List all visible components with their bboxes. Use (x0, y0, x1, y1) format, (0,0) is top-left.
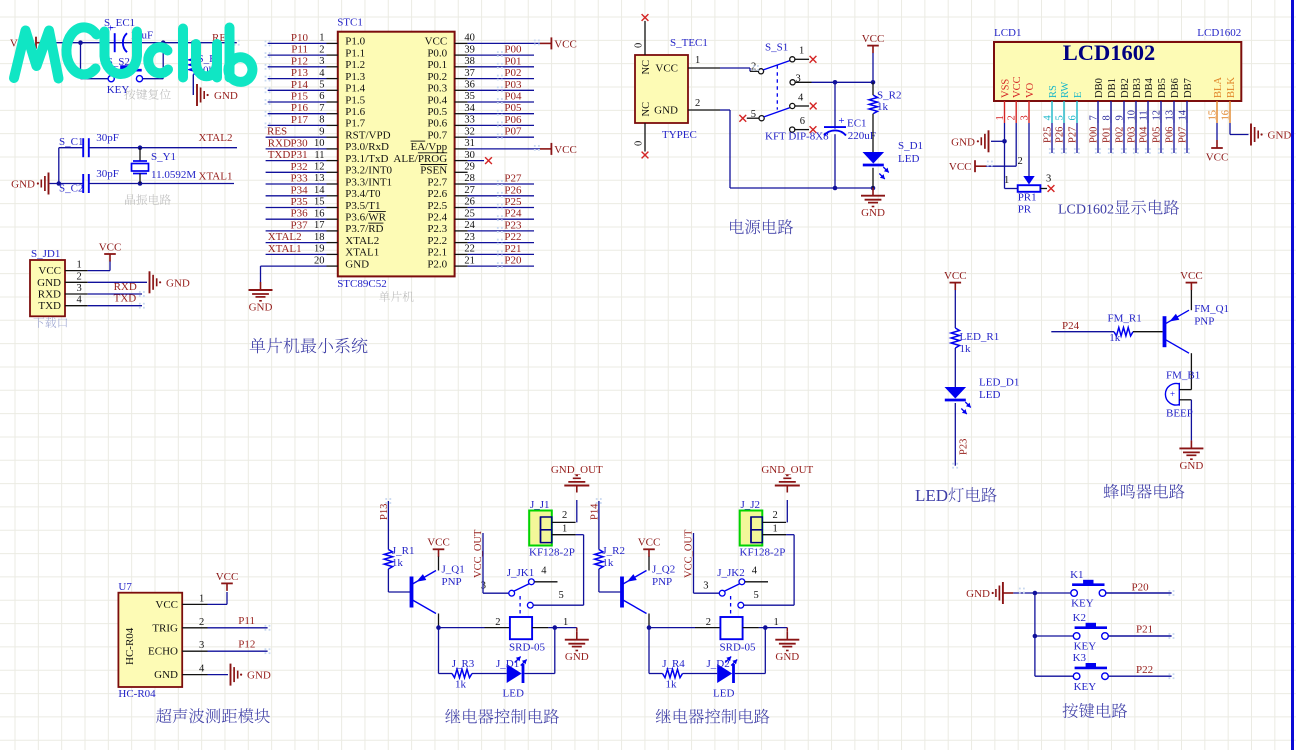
svg-text:P2.0: P2.0 (427, 258, 447, 270)
svg-text:2: 2 (199, 617, 204, 628)
svg-text:P3.7/RD: P3.7/RD (345, 223, 383, 235)
svg-text:P01: P01 (504, 55, 521, 67)
svg-text:S_C2: S_C2 (59, 183, 83, 195)
svg-text:P14: P14 (291, 79, 309, 91)
svg-text:J_Q1: J_Q1 (442, 564, 465, 576)
svg-text:P0.4: P0.4 (427, 94, 447, 106)
svg-text:GND: GND (11, 179, 35, 191)
svg-text:11.0592M: 11.0592M (151, 169, 196, 181)
svg-text:38: 38 (464, 56, 475, 67)
svg-text:P2.7: P2.7 (427, 176, 447, 188)
svg-text:P2.4: P2.4 (427, 212, 447, 224)
svg-text:GND_OUT: GND_OUT (551, 464, 603, 476)
svg-text:STC1: STC1 (337, 17, 363, 29)
svg-text:GND: GND (1268, 130, 1292, 142)
svg-text:5: 5 (754, 590, 759, 601)
svg-text:P3.1/TxD: P3.1/TxD (345, 153, 388, 165)
svg-text:16: 16 (314, 208, 325, 219)
svg-text:25: 25 (464, 208, 475, 219)
svg-text:37: 37 (464, 68, 475, 79)
svg-text:4: 4 (199, 664, 205, 675)
svg-text:VCC: VCC (99, 241, 122, 253)
svg-text:P1.1: P1.1 (345, 47, 365, 59)
svg-text:GND: GND (966, 588, 990, 600)
svg-text:P2.3: P2.3 (427, 223, 447, 235)
svg-text:STC89C52: STC89C52 (337, 278, 387, 290)
svg-text:GND: GND (951, 136, 975, 148)
svg-text:P21: P21 (1136, 624, 1153, 636)
svg-text:XTAL2: XTAL2 (199, 132, 233, 144)
svg-text:VCC: VCC (425, 36, 448, 48)
svg-text:DB7: DB7 (1183, 78, 1194, 98)
svg-text:XTAL1: XTAL1 (345, 247, 379, 259)
svg-text:P02: P02 (1115, 127, 1126, 143)
svg-text:P22: P22 (1136, 664, 1153, 676)
svg-text:1k: 1k (392, 557, 404, 569)
svg-text:RS: RS (1048, 85, 1059, 98)
svg-text:K2: K2 (1073, 612, 1086, 624)
svg-text:30pF: 30pF (96, 168, 119, 180)
svg-text:P01: P01 (1102, 127, 1113, 143)
svg-text:P02: P02 (504, 67, 521, 79)
svg-text:24: 24 (464, 220, 475, 231)
svg-text:4: 4 (77, 295, 83, 306)
svg-text:DB4: DB4 (1144, 77, 1155, 98)
svg-text:VCC: VCC (862, 33, 885, 45)
svg-text:P04: P04 (1139, 126, 1150, 143)
svg-text:DB2: DB2 (1120, 78, 1131, 98)
svg-text:FM_Q1: FM_Q1 (1194, 303, 1229, 315)
svg-text:P37: P37 (290, 219, 308, 231)
svg-text:P27: P27 (1068, 127, 1079, 143)
svg-text:KEY: KEY (1074, 681, 1097, 693)
svg-text:1k: 1k (455, 679, 467, 691)
svg-text:P3.2/INT0: P3.2/INT0 (345, 165, 392, 177)
svg-text:DB5: DB5 (1157, 78, 1168, 98)
svg-text:P05: P05 (504, 102, 522, 114)
svg-text:P3.5/T1: P3.5/T1 (345, 200, 380, 212)
svg-text:DB0: DB0 (1094, 78, 1105, 98)
svg-text:27: 27 (464, 185, 475, 196)
svg-text:0: 0 (634, 141, 645, 146)
svg-text:1: 1 (695, 55, 700, 66)
svg-text:30pF: 30pF (96, 132, 119, 144)
svg-text:P36: P36 (290, 208, 308, 220)
svg-text:1: 1 (563, 617, 568, 628)
svg-text:GND: GND (247, 670, 271, 682)
svg-text:11: 11 (314, 150, 324, 161)
svg-text:P00: P00 (1089, 127, 1100, 143)
svg-text:2: 2 (1018, 156, 1023, 167)
svg-text:16: 16 (1221, 110, 1232, 121)
svg-text:VCC: VCC (655, 63, 678, 75)
svg-text:6: 6 (319, 91, 324, 102)
svg-text:5: 5 (559, 590, 564, 601)
svg-text:13: 13 (314, 173, 325, 184)
svg-text:20: 20 (314, 255, 325, 266)
svg-text:P2.2: P2.2 (427, 235, 447, 247)
svg-text:TYPEC: TYPEC (662, 129, 697, 141)
svg-text:P20: P20 (504, 255, 522, 267)
svg-text:2: 2 (562, 510, 567, 521)
svg-text:RST/VPD: RST/VPD (345, 130, 390, 142)
svg-text:ALE/PROG: ALE/PROG (393, 153, 447, 165)
svg-text:GND: GND (775, 651, 799, 663)
svg-text:P3.0/RxD: P3.0/RxD (345, 141, 389, 153)
svg-text:P07: P07 (1178, 127, 1189, 143)
svg-text:14: 14 (314, 185, 325, 196)
svg-text:S_EC1: S_EC1 (104, 17, 135, 29)
svg-text:J_JK1: J_JK1 (507, 567, 535, 579)
svg-text:P25: P25 (504, 196, 522, 208)
svg-text:1: 1 (774, 617, 779, 628)
svg-text:GND_OUT: GND_OUT (761, 464, 813, 476)
svg-text:1k: 1k (960, 343, 972, 355)
svg-text:J_R4: J_R4 (662, 658, 685, 670)
svg-text:LED: LED (979, 389, 1000, 401)
svg-text:J_R3: J_R3 (452, 658, 475, 670)
svg-text:BLA: BLA (1213, 77, 1224, 98)
svg-text:P07: P07 (504, 126, 522, 138)
svg-text:RES: RES (267, 126, 287, 138)
svg-text:2: 2 (1007, 115, 1018, 120)
svg-text:HC-R04: HC-R04 (118, 688, 156, 700)
svg-text:DB1: DB1 (1107, 78, 1118, 98)
svg-text:P13: P13 (379, 504, 390, 520)
svg-text:23: 23 (464, 232, 475, 243)
svg-text:P24: P24 (504, 208, 522, 220)
svg-text:3: 3 (199, 640, 204, 651)
svg-text:8: 8 (1102, 115, 1113, 120)
svg-text:VCC: VCC (427, 537, 450, 549)
svg-text:P0.0: P0.0 (427, 47, 447, 59)
svg-text:LED: LED (503, 688, 524, 700)
svg-text:P0.3: P0.3 (427, 83, 447, 95)
svg-text:XTAL1: XTAL1 (268, 243, 302, 255)
svg-text:220uF: 220uF (848, 130, 876, 142)
svg-text:VCC: VCC (944, 270, 967, 282)
svg-text:P26: P26 (1055, 127, 1066, 143)
svg-text:10: 10 (314, 138, 325, 149)
svg-text:5: 5 (1055, 115, 1066, 120)
svg-text:P23: P23 (959, 439, 970, 455)
svg-text:40: 40 (464, 33, 475, 44)
svg-text:P12: P12 (291, 55, 308, 67)
svg-text:4: 4 (1043, 115, 1054, 121)
svg-text:VCC: VCC (1206, 152, 1229, 164)
svg-text:2: 2 (495, 617, 500, 628)
svg-text:J_Q2: J_Q2 (652, 564, 675, 576)
svg-text:P13: P13 (291, 67, 309, 79)
svg-text:15: 15 (1208, 110, 1219, 121)
svg-text:S_JD1: S_JD1 (31, 248, 60, 260)
svg-text:2: 2 (706, 617, 711, 628)
svg-text:PNP: PNP (442, 576, 462, 588)
svg-text:P0.6: P0.6 (427, 118, 447, 130)
svg-text:GND: GND (345, 258, 369, 270)
svg-text:2: 2 (773, 510, 778, 521)
svg-text:1: 1 (799, 46, 804, 57)
svg-text:SRD-05: SRD-05 (509, 642, 546, 654)
svg-text:1: 1 (319, 33, 324, 44)
svg-text:3: 3 (1020, 115, 1031, 120)
svg-text:J_J1: J_J1 (530, 499, 550, 511)
svg-text:3: 3 (703, 581, 708, 592)
svg-text:VCC_OUT: VCC_OUT (473, 529, 484, 578)
svg-text:XTAL1: XTAL1 (199, 171, 233, 183)
svg-text:36: 36 (464, 80, 475, 91)
svg-text:1k: 1k (877, 101, 889, 113)
svg-text:K1: K1 (1070, 569, 1083, 581)
svg-text:BLK: BLK (1226, 77, 1237, 98)
svg-text:VCC: VCC (554, 38, 577, 50)
svg-text:P03: P03 (1127, 127, 1138, 143)
svg-text:S_R2: S_R2 (877, 89, 901, 101)
svg-text:1k: 1k (666, 679, 678, 691)
svg-text:P10: P10 (291, 32, 309, 44)
svg-text:PNP: PNP (1194, 315, 1214, 327)
svg-text:RXD: RXD (38, 289, 61, 301)
svg-text:14: 14 (1178, 109, 1189, 120)
svg-text:P1.3: P1.3 (345, 71, 365, 83)
svg-text:P21: P21 (504, 243, 521, 255)
svg-text:BEEP: BEEP (1166, 408, 1193, 420)
svg-text:P06: P06 (504, 114, 522, 126)
svg-text:S_Y1: S_Y1 (151, 151, 176, 163)
svg-text:2: 2 (319, 44, 324, 55)
svg-text:6: 6 (800, 116, 805, 127)
svg-text:30: 30 (464, 150, 475, 161)
svg-text:GND: GND (565, 651, 589, 663)
svg-text:SRD-05: SRD-05 (720, 642, 757, 654)
svg-text:P0.5: P0.5 (427, 106, 447, 118)
svg-text:P2.5: P2.5 (427, 200, 447, 212)
svg-text:P30: P30 (290, 137, 308, 149)
svg-text:28: 28 (464, 173, 475, 184)
svg-text:EC1: EC1 (847, 118, 867, 130)
svg-text:3: 3 (319, 56, 324, 67)
svg-text:P06: P06 (1165, 127, 1176, 143)
svg-text:PSEN: PSEN (420, 165, 447, 177)
svg-text:+: + (838, 115, 844, 127)
svg-text:NC: NC (641, 60, 652, 75)
svg-text:P2.6: P2.6 (427, 188, 447, 200)
svg-text:P0.1: P0.1 (427, 59, 447, 71)
svg-text:P0.7: P0.7 (427, 130, 447, 142)
svg-text:KEY: KEY (1071, 598, 1094, 610)
svg-text:TXD: TXD (268, 149, 291, 161)
svg-text:P3.3/INT1: P3.3/INT1 (345, 176, 392, 188)
svg-text:LCD1602: LCD1602 (1063, 40, 1156, 65)
svg-text:9: 9 (319, 126, 324, 137)
svg-text:1: 1 (995, 115, 1006, 120)
svg-text:RW: RW (1060, 82, 1071, 98)
svg-text:P1.2: P1.2 (345, 59, 365, 71)
svg-text:VCC: VCC (554, 144, 577, 156)
svg-text:3: 3 (1046, 174, 1051, 185)
svg-text:RXD: RXD (114, 281, 137, 293)
svg-text:4: 4 (752, 566, 758, 577)
svg-text:J_J2: J_J2 (741, 499, 761, 511)
svg-text:P1.7: P1.7 (345, 118, 365, 130)
svg-text:VO: VO (1025, 82, 1036, 98)
svg-text:18: 18 (314, 232, 325, 243)
svg-text:P11: P11 (238, 615, 255, 627)
svg-text:E: E (1073, 92, 1084, 98)
svg-text:0: 0 (634, 43, 645, 48)
svg-text:GND: GND (166, 277, 190, 289)
svg-text:XTAL2: XTAL2 (345, 235, 379, 247)
svg-text:LCD1602: LCD1602 (1197, 27, 1241, 39)
svg-text:7: 7 (1089, 115, 1100, 120)
svg-text:S_TEC1: S_TEC1 (670, 37, 708, 49)
svg-text:LED_R1: LED_R1 (960, 331, 1000, 343)
svg-text:2: 2 (77, 271, 82, 282)
svg-text:J_D1: J_D1 (496, 658, 519, 670)
svg-text:LED_D1: LED_D1 (979, 377, 1019, 389)
svg-text:VSS: VSS (1001, 79, 1012, 98)
svg-text:J_R2: J_R2 (602, 545, 625, 557)
svg-text:KEY: KEY (107, 84, 130, 96)
svg-text:GND: GND (861, 207, 885, 219)
svg-text:VCC_OUT: VCC_OUT (684, 529, 695, 578)
svg-text:P20: P20 (1132, 582, 1150, 594)
svg-text:P16: P16 (291, 102, 309, 114)
svg-text:TRIG: TRIG (152, 622, 178, 634)
svg-text:2: 2 (695, 98, 700, 109)
svg-text:LCD1602: LCD1602 (1058, 203, 1114, 218)
svg-text:P24: P24 (1062, 320, 1080, 332)
svg-text:1k: 1k (602, 557, 614, 569)
svg-text:TXD: TXD (38, 300, 61, 312)
svg-text:GND: GND (249, 301, 273, 313)
svg-text:P0.2: P0.2 (427, 71, 447, 83)
svg-text:TXD: TXD (114, 293, 137, 305)
svg-text:VCC: VCC (155, 599, 178, 611)
svg-text:P1.5: P1.5 (345, 94, 365, 106)
svg-text:1: 1 (773, 524, 778, 535)
svg-text:4: 4 (798, 93, 804, 104)
svg-text:J_JK2: J_JK2 (717, 567, 745, 579)
svg-text:P35: P35 (290, 196, 308, 208)
svg-text:KEY: KEY (1074, 641, 1097, 653)
svg-text:P26: P26 (504, 184, 522, 196)
svg-text:KF128-2P: KF128-2P (529, 547, 575, 559)
svg-text:1: 1 (77, 260, 82, 271)
svg-text:EA/Vpp: EA/Vpp (411, 141, 448, 153)
svg-text:DB6: DB6 (1170, 78, 1181, 98)
svg-text:11: 11 (1139, 110, 1150, 120)
svg-text:PNP: PNP (652, 576, 672, 588)
svg-text:P22: P22 (504, 231, 521, 243)
svg-text:ECHO: ECHO (148, 646, 178, 658)
svg-text:10: 10 (1127, 110, 1138, 121)
svg-text:HC-R04: HC-R04 (124, 627, 136, 665)
svg-text:DB3: DB3 (1132, 78, 1143, 98)
svg-text:P27: P27 (504, 173, 522, 185)
svg-text:VCC: VCC (638, 537, 661, 549)
svg-text:J_D2: J_D2 (707, 658, 730, 670)
svg-text:VCC: VCC (1012, 76, 1023, 98)
svg-text:GND: GND (654, 105, 678, 117)
svg-text:P1.4: P1.4 (345, 83, 365, 95)
svg-text:32: 32 (464, 126, 475, 137)
svg-text:9: 9 (1115, 115, 1126, 120)
svg-text:J_R1: J_R1 (392, 545, 415, 557)
svg-text:12: 12 (314, 162, 325, 173)
svg-text:VCC: VCC (1180, 270, 1203, 282)
svg-text:33: 33 (464, 115, 475, 126)
svg-text:29: 29 (464, 162, 475, 173)
svg-text:S_C1: S_C1 (59, 136, 83, 148)
svg-text:21: 21 (464, 255, 475, 266)
svg-text:LCD1: LCD1 (994, 27, 1022, 39)
svg-text:VCC: VCC (38, 265, 61, 277)
svg-text:3: 3 (77, 283, 82, 294)
svg-text:P3.4/T0: P3.4/T0 (345, 188, 381, 200)
svg-text:FM_B1: FM_B1 (1166, 369, 1200, 381)
svg-text:P1.0: P1.0 (345, 36, 365, 48)
svg-text:VCC: VCC (949, 161, 972, 173)
svg-text:P34: P34 (290, 184, 308, 196)
svg-text:LED: LED (898, 153, 919, 165)
svg-text:PR1: PR1 (1018, 192, 1037, 204)
svg-text:17: 17 (314, 220, 325, 231)
svg-text:LED: LED (713, 688, 734, 700)
svg-text:VCC: VCC (216, 571, 239, 583)
svg-text:P25: P25 (1043, 127, 1054, 143)
svg-text:P14: P14 (589, 503, 600, 520)
svg-text:1k: 1k (1109, 332, 1121, 344)
svg-text:XTAL2: XTAL2 (268, 231, 302, 243)
svg-text:P2.1: P2.1 (427, 247, 447, 259)
svg-text:P17: P17 (291, 114, 309, 126)
svg-text:FM_R1: FM_R1 (1108, 313, 1142, 325)
svg-text:4: 4 (319, 68, 325, 79)
svg-text:GND: GND (154, 669, 178, 681)
svg-text:7: 7 (319, 103, 324, 114)
svg-text:P31: P31 (290, 149, 307, 161)
svg-text:P12: P12 (238, 638, 255, 650)
svg-text:26: 26 (464, 197, 475, 208)
svg-text:P1.6: P1.6 (345, 106, 365, 118)
svg-text:P33: P33 (290, 173, 308, 185)
svg-text:19: 19 (314, 244, 325, 255)
svg-text:KF128-2P: KF128-2P (740, 547, 786, 559)
svg-text:15: 15 (314, 197, 325, 208)
svg-text:34: 34 (464, 103, 475, 114)
svg-text:U7: U7 (118, 581, 132, 593)
svg-text:P15: P15 (291, 91, 309, 103)
svg-text:KFT DIP-8X8: KFT DIP-8X8 (765, 131, 829, 143)
svg-text:22: 22 (464, 244, 475, 255)
svg-text:P00: P00 (504, 44, 522, 56)
svg-text:8: 8 (319, 115, 324, 126)
svg-text:GND: GND (37, 277, 61, 289)
svg-text:LED: LED (915, 486, 948, 505)
svg-text:13: 13 (1165, 110, 1176, 121)
svg-text:31: 31 (464, 138, 475, 149)
svg-text:GND: GND (214, 90, 238, 102)
svg-text:6: 6 (1068, 115, 1079, 120)
svg-text:1: 1 (199, 593, 204, 604)
svg-text:1: 1 (562, 524, 567, 535)
svg-text:12: 12 (1152, 110, 1163, 121)
svg-text:PR: PR (1018, 204, 1032, 216)
svg-text:P32: P32 (290, 161, 307, 173)
svg-text:S_D1: S_D1 (898, 140, 923, 152)
svg-text:GND: GND (1179, 460, 1203, 472)
